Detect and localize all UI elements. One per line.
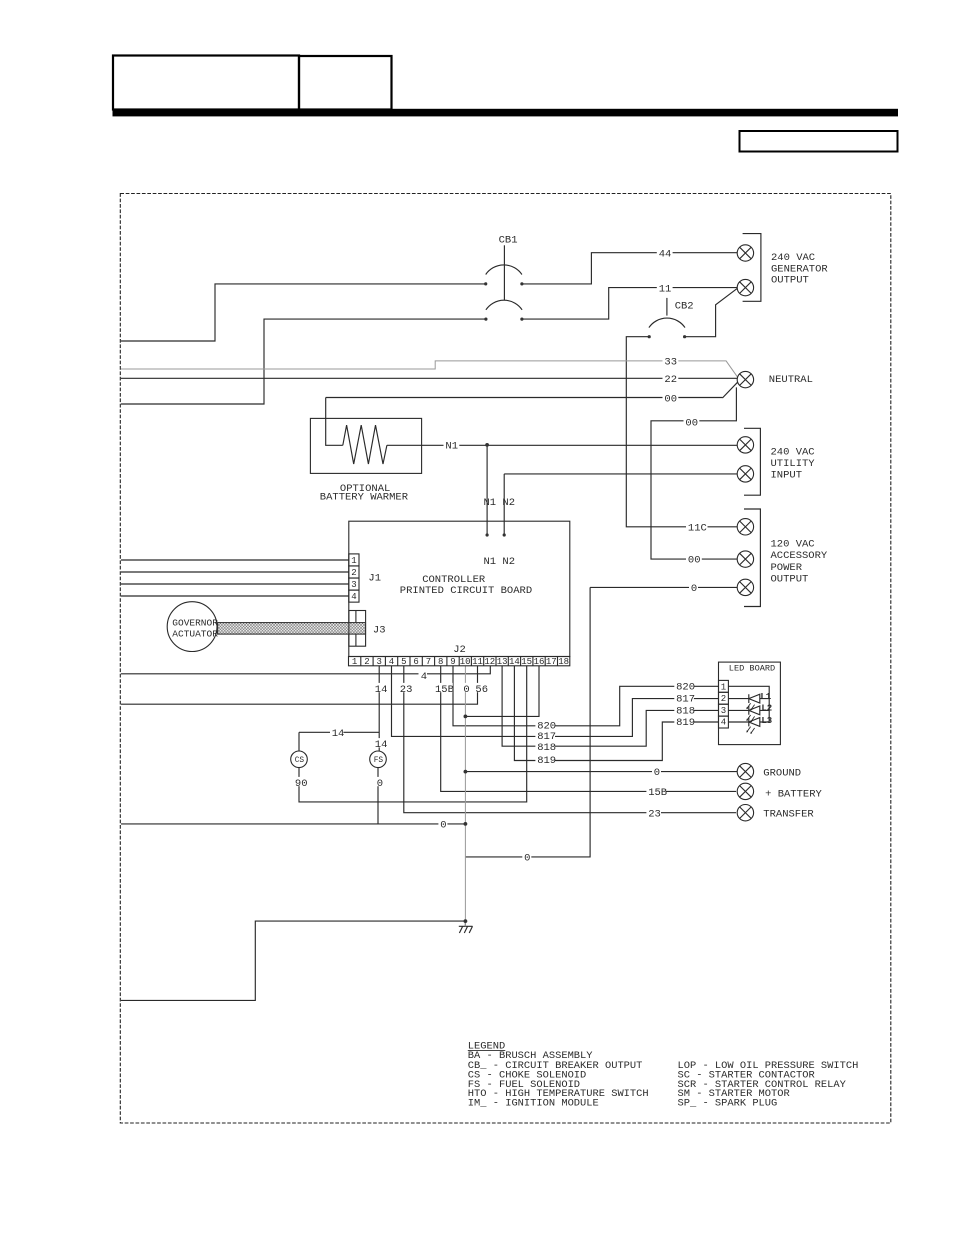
- svg-text:OUTPUT: OUTPUT: [771, 573, 809, 585]
- svg-text:16: 16: [534, 657, 545, 667]
- svg-text:00: 00: [688, 555, 701, 567]
- svg-text:819: 819: [676, 717, 695, 729]
- svg-text:INPUT: INPUT: [771, 470, 803, 482]
- svg-text:1: 1: [352, 657, 357, 667]
- svg-text:2: 2: [364, 657, 369, 667]
- svg-text:18: 18: [558, 657, 569, 667]
- svg-text:3: 3: [351, 580, 356, 590]
- svg-text:0: 0: [524, 853, 530, 865]
- svg-text:7: 7: [426, 657, 431, 667]
- svg-text:L1: L1: [760, 692, 771, 702]
- svg-text:817: 817: [676, 694, 695, 706]
- svg-text:GOVERNOR: GOVERNOR: [172, 617, 218, 628]
- svg-text:GENERATOR: GENERATOR: [771, 263, 828, 275]
- svg-text:14: 14: [509, 657, 520, 667]
- svg-text:N1 N2: N1 N2: [484, 556, 516, 568]
- svg-text:13: 13: [497, 657, 508, 667]
- svg-text:ACTUATOR: ACTUATOR: [172, 628, 218, 639]
- svg-text:LED BOARD: LED BOARD: [729, 663, 775, 673]
- svg-text:240 VAC: 240 VAC: [771, 447, 815, 459]
- svg-text:15B: 15B: [435, 684, 454, 696]
- svg-text:4: 4: [421, 671, 427, 683]
- svg-text:SP_ - SPARK PLUG: SP_ - SPARK PLUG: [678, 1097, 778, 1109]
- svg-text:4: 4: [389, 657, 394, 667]
- svg-text:90: 90: [295, 778, 308, 790]
- svg-text:818: 818: [676, 705, 695, 717]
- svg-text:IM_ - IGNITION MODULE: IM_ - IGNITION MODULE: [468, 1097, 599, 1109]
- svg-text:44: 44: [659, 249, 672, 261]
- svg-text:14: 14: [375, 684, 388, 696]
- svg-text:0: 0: [440, 820, 446, 832]
- svg-text:15: 15: [521, 657, 532, 667]
- svg-text:820: 820: [676, 681, 695, 693]
- svg-text:2: 2: [351, 568, 356, 578]
- svg-text:4: 4: [351, 592, 356, 602]
- svg-text:3: 3: [376, 657, 381, 667]
- svg-text:5: 5: [401, 657, 406, 667]
- svg-text:11: 11: [472, 657, 483, 667]
- svg-text:NEUTRAL: NEUTRAL: [769, 374, 813, 386]
- svg-text:14: 14: [375, 739, 388, 751]
- svg-text:23: 23: [648, 808, 661, 820]
- svg-text:33: 33: [664, 357, 677, 369]
- svg-text:OUTPUT: OUTPUT: [771, 275, 809, 287]
- svg-text:120 VAC: 120 VAC: [771, 538, 815, 550]
- svg-text:J2: J2: [453, 644, 466, 656]
- svg-text:9: 9: [450, 657, 455, 667]
- svg-text:00: 00: [664, 394, 677, 406]
- svg-text:240 VAC: 240 VAC: [771, 252, 815, 264]
- svg-text:FS: FS: [374, 757, 384, 765]
- svg-text:+ BATTERY: + BATTERY: [765, 788, 822, 800]
- svg-text:11C: 11C: [688, 523, 707, 535]
- svg-text:J3: J3: [373, 624, 386, 636]
- svg-text:12: 12: [484, 657, 495, 667]
- svg-text:0: 0: [691, 583, 697, 595]
- svg-text:4: 4: [721, 717, 726, 727]
- svg-text:6: 6: [413, 657, 418, 667]
- svg-text:0: 0: [463, 684, 469, 696]
- svg-text:BATTERY WARMER: BATTERY WARMER: [320, 492, 409, 504]
- svg-text:00: 00: [685, 418, 698, 430]
- svg-text:23: 23: [400, 684, 413, 696]
- svg-text:CS: CS: [295, 757, 305, 765]
- svg-text:N1: N1: [445, 440, 458, 452]
- svg-text:CB2: CB2: [675, 300, 694, 312]
- svg-text:L2: L2: [761, 704, 772, 714]
- svg-text:1: 1: [721, 683, 726, 693]
- svg-text:PRINTED CIRCUIT BOARD: PRINTED CIRCUIT BOARD: [400, 585, 532, 597]
- svg-text:819: 819: [537, 755, 556, 767]
- svg-text:818: 818: [537, 742, 556, 754]
- svg-text:2: 2: [721, 694, 726, 704]
- svg-text:TRANSFER: TRANSFER: [763, 808, 814, 820]
- svg-text:GROUND: GROUND: [763, 767, 801, 779]
- svg-text:0: 0: [654, 767, 660, 779]
- svg-text:0: 0: [377, 778, 383, 790]
- svg-text:3: 3: [721, 706, 726, 716]
- svg-text:11: 11: [659, 284, 672, 296]
- svg-text:ACCESSORY: ACCESSORY: [771, 550, 828, 562]
- svg-text:17: 17: [546, 657, 557, 667]
- svg-text:10: 10: [460, 657, 471, 667]
- svg-text:1: 1: [351, 556, 356, 566]
- svg-text:UTILITY: UTILITY: [771, 458, 816, 470]
- svg-text:14: 14: [332, 728, 345, 740]
- svg-text:J1: J1: [368, 573, 381, 585]
- svg-text:POWER: POWER: [771, 562, 803, 574]
- svg-text:N1 N2: N1 N2: [484, 497, 516, 509]
- svg-text:56: 56: [475, 684, 488, 696]
- svg-text:15B: 15B: [648, 787, 667, 799]
- svg-text:22: 22: [664, 374, 677, 386]
- svg-text:CB1: CB1: [499, 234, 518, 246]
- svg-text:L3: L3: [761, 716, 772, 726]
- svg-text:8: 8: [438, 657, 443, 667]
